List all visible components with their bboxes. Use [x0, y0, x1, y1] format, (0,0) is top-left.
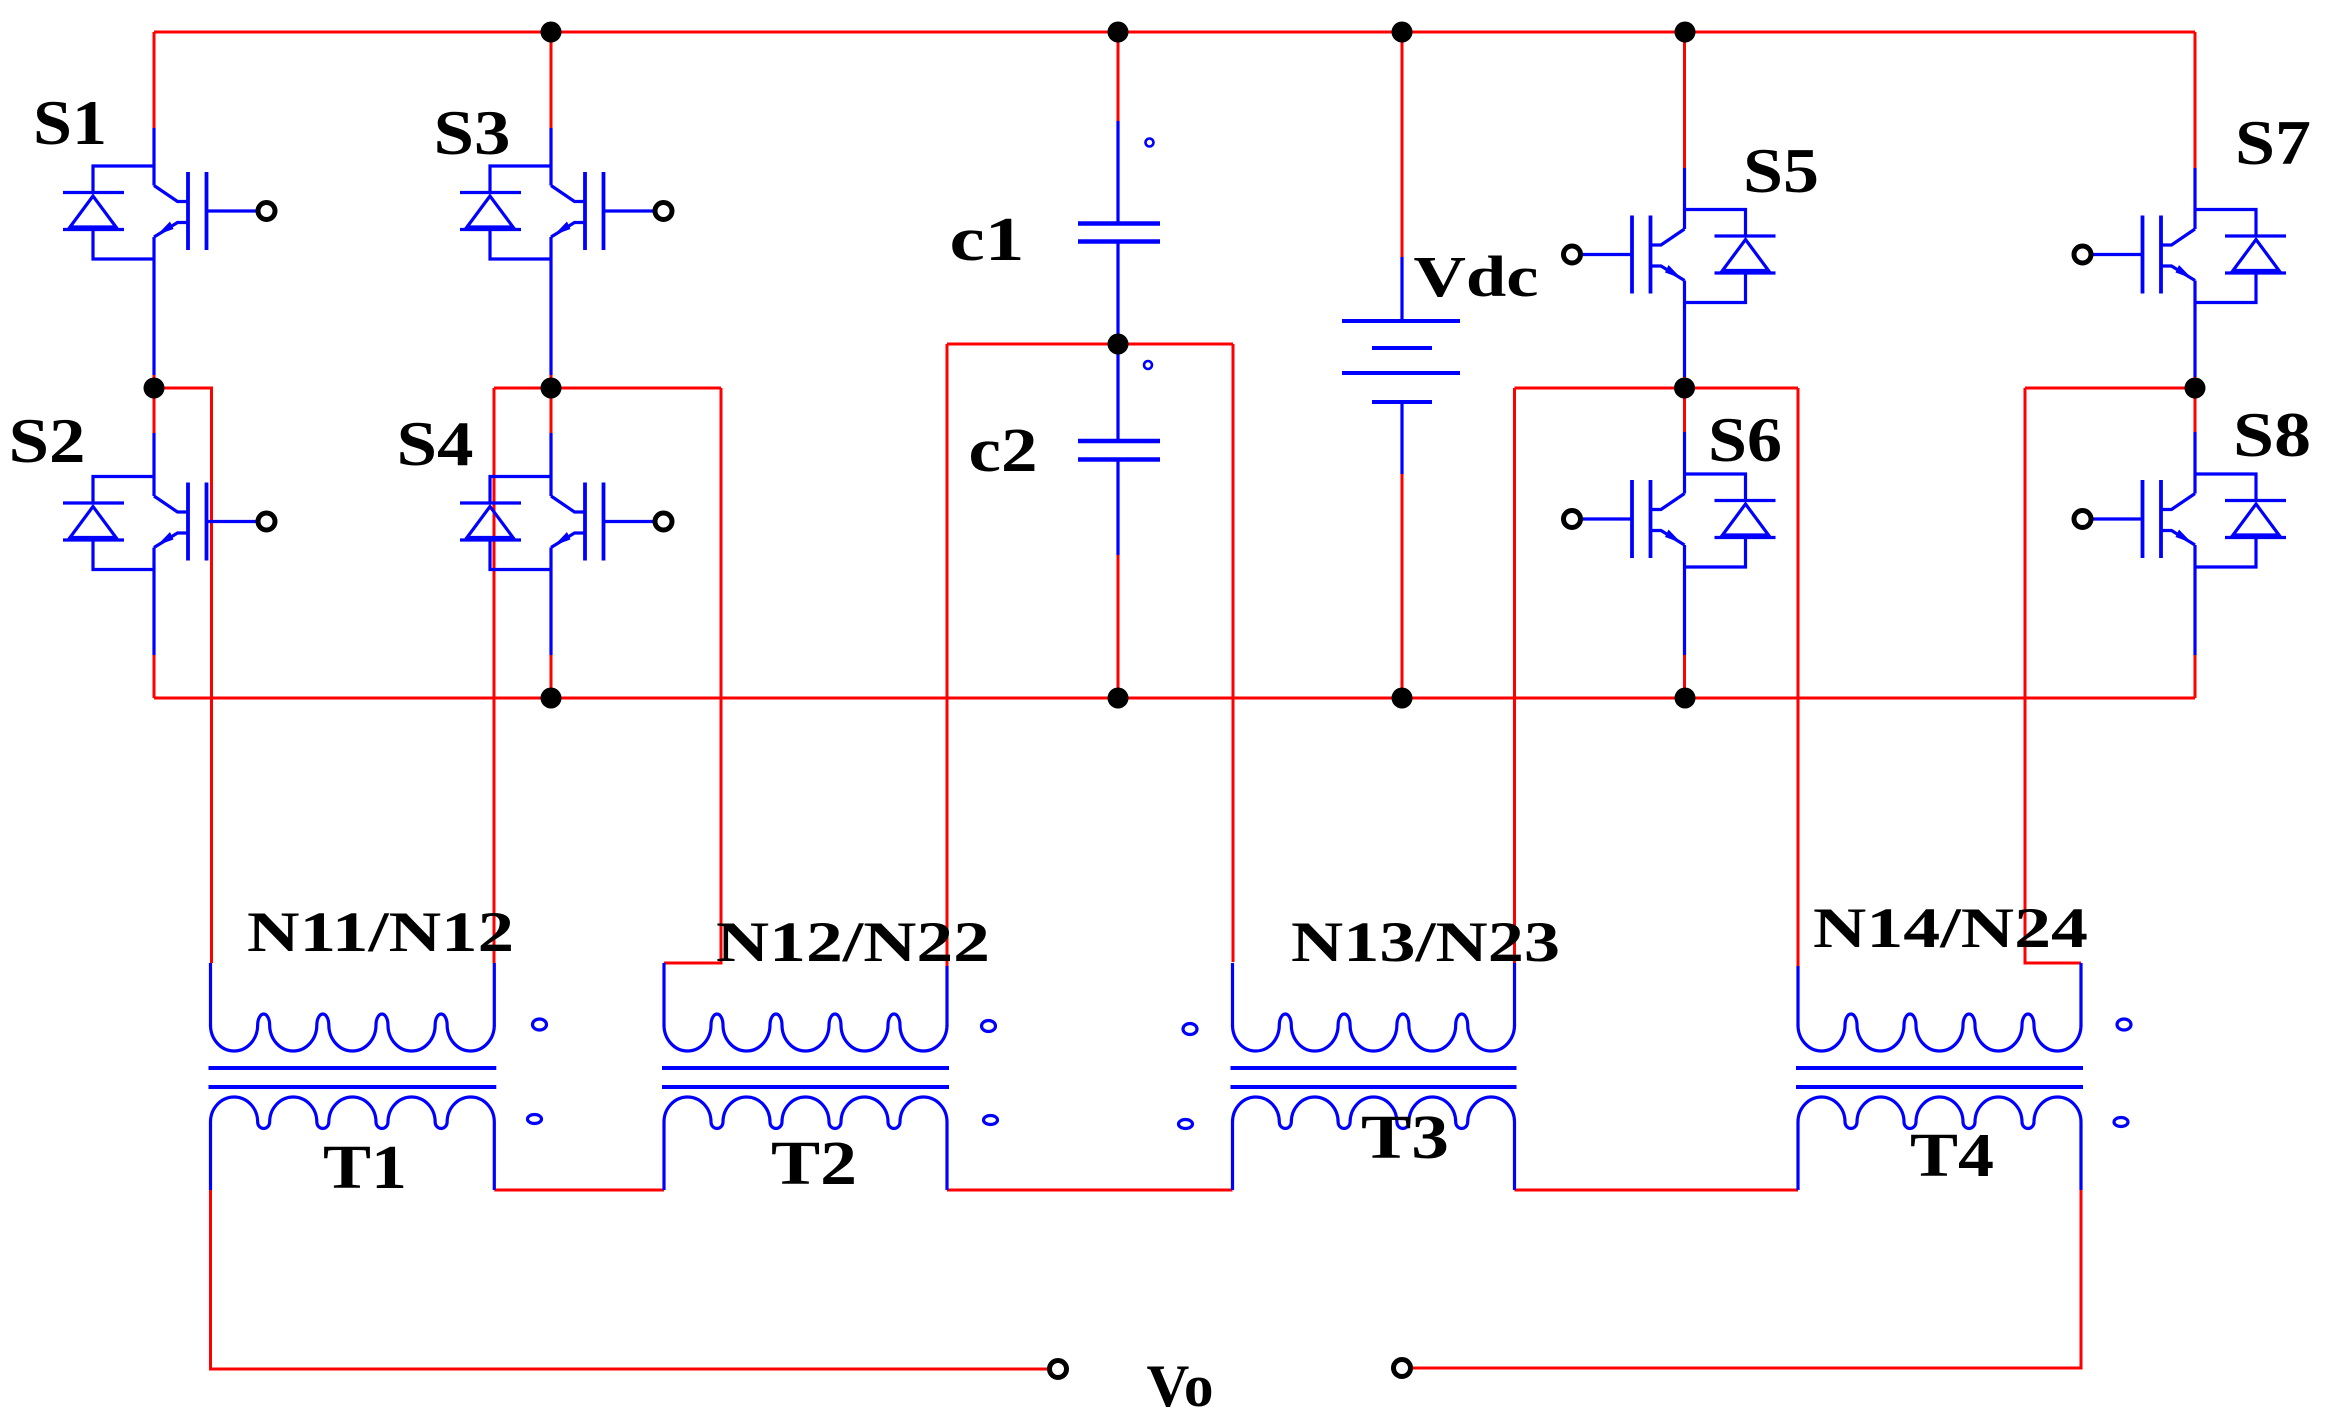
junction on mid rail at S4 branch	[541, 688, 562, 709]
voltage source Vdc (battery)	[1342, 257, 1460, 474]
node A: S1/S2 midpoint	[144, 378, 165, 399]
wire: T4 secondary right to Vo- terminal	[1412, 1190, 2081, 1368]
svg-text:Vdc: Vdc	[1414, 244, 1539, 309]
transistor S5 (MOSFET with anti-parallel diode, mirrored)	[1564, 168, 1776, 377]
transistor S8 (MOSFET with anti-parallel diode, mirrored)	[2074, 432, 2286, 655]
junction on mid rail at S6 branch	[1675, 688, 1696, 709]
svg-text:S3: S3	[434, 98, 511, 168]
wire: crossbar to T2 primary left riser	[664, 388, 721, 963]
capacitor c1	[1078, 121, 1160, 344]
transistor S4 (MOSFET with anti-parallel diode)	[460, 433, 672, 655]
wire: Vdc positive feed from top rail	[1401, 32, 1404, 257]
svg-text:T4: T4	[1910, 1122, 1994, 1190]
svg-text:S4: S4	[397, 409, 474, 479]
svg-text:S1: S1	[33, 88, 107, 158]
wire: S1 drain feed from top rail	[153, 32, 156, 130]
transistor S1 (MOSFET with anti-parallel diode)	[63, 128, 275, 375]
junction on top rail at c1 branch	[1108, 22, 1129, 43]
terminal Vo- (right output)	[1394, 1360, 1411, 1377]
svg-text:Vo: Vo	[1147, 1353, 1214, 1413]
svg-text:N14/N24: N14/N24	[1813, 897, 2088, 960]
capacitor c2	[1078, 344, 1160, 555]
wire: S5/S6 midpoint crossbar	[1515, 387, 1799, 390]
wire: S2 source to mid rail	[153, 655, 156, 698]
transformer T2	[662, 963, 998, 1190]
wire: S1/S2 midpoint to T1 primary left	[154, 388, 212, 963]
terminal Vo+ (left output)	[1050, 1361, 1067, 1378]
wire: top DC+ rail	[154, 31, 2195, 34]
wire: S7/S8 midpoint crossbar	[2025, 387, 2195, 390]
svg-text:S2: S2	[9, 406, 86, 476]
svg-text:N12/N22: N12/N22	[716, 911, 990, 974]
node D: S7/S8 midpoint	[2185, 378, 2206, 399]
wire: crossbar to T4 primary right riser	[2025, 388, 2081, 963]
svg-text:c2: c2	[969, 417, 1038, 485]
wire: crossbar to T3 primary right riser	[1513, 388, 1516, 963]
svg-text:S5: S5	[1743, 136, 1819, 206]
transformer T1	[209, 963, 547, 1190]
wire: S8 source to mid rail	[2194, 655, 2197, 698]
wire: c-midpoint to T3 primary left riser	[1232, 344, 1235, 962]
svg-text:T3: T3	[1361, 1104, 1449, 1172]
wire: T1 secondary left to Vo+ terminal	[211, 1190, 1049, 1369]
svg-text:S8: S8	[2233, 400, 2311, 470]
wire: c1/c2 midpoint crossbar	[947, 343, 1233, 346]
wire: S1-S2 midpoint stub	[153, 375, 156, 433]
wire: crossbar to T4 primary left riser	[1797, 388, 1800, 966]
wire: secondary link T3-T4	[1515, 1189, 1799, 1192]
transistor S7 (MOSFET with anti-parallel diode, mirrored)	[2074, 168, 2286, 377]
svg-text:N13/N23: N13/N23	[1291, 911, 1560, 974]
junction on mid rail at c2 branch	[1108, 688, 1129, 709]
node M: c1/c2 midpoint	[1108, 334, 1129, 355]
wire: S7 drain feed from top rail	[2194, 32, 2197, 168]
wire: S5 drain feed from top rail	[1683, 32, 1686, 168]
wire: S3 drain feed from top rail	[550, 32, 553, 128]
node B: S3/S4 midpoint	[541, 378, 562, 399]
transformer T4	[1796, 963, 2131, 1190]
junction on top rail at S5 branch	[1675, 22, 1696, 43]
wire: S3/S4 midpoint crossbar	[494, 387, 721, 390]
junction on mid rail at Vdc branch	[1392, 688, 1413, 709]
wire: crossbar to T1 primary right riser	[493, 388, 496, 963]
wire: secondary link T1-T2	[494, 1189, 664, 1192]
svg-text:S6: S6	[1708, 405, 1782, 475]
transistor S3 (MOSFET with anti-parallel diode)	[460, 128, 672, 375]
wire: c2 bottom to mid rail	[1117, 555, 1120, 698]
wire: S3-S4 midpoint stub	[550, 375, 553, 433]
svg-text:T2: T2	[771, 1130, 857, 1198]
svg-text:c1: c1	[950, 206, 1025, 274]
svg-text:T1: T1	[323, 1134, 407, 1202]
wire: Vdc negative to mid rail	[1401, 474, 1404, 698]
transformer T3	[1179, 963, 1517, 1190]
junction on top rail at Vdc branch	[1392, 22, 1413, 43]
wire: c1 feed from top rail	[1117, 32, 1120, 121]
wire: S4 source to mid rail	[550, 655, 553, 698]
transistor S6 (MOSFET with anti-parallel diode, mirrored)	[1564, 432, 1776, 655]
wire: secondary link T2-T3	[947, 1189, 1233, 1192]
node C: S5/S6 midpoint	[1674, 378, 1695, 399]
wire: c-midpoint to T2 primary right riser	[946, 344, 949, 966]
svg-text:N11/N12: N11/N12	[247, 901, 514, 964]
wire: S5-S6 midpoint stub	[1683, 377, 1686, 432]
wire: S6 source to mid rail	[1683, 655, 1686, 698]
junction on top rail at S3 branch	[541, 22, 562, 43]
transistor S2 (MOSFET with anti-parallel diode)	[63, 433, 275, 655]
svg-text:S7: S7	[2235, 108, 2311, 178]
wire: mid DC- rail	[154, 697, 2195, 700]
wire: S7-S8 midpoint stub	[2194, 377, 2197, 432]
